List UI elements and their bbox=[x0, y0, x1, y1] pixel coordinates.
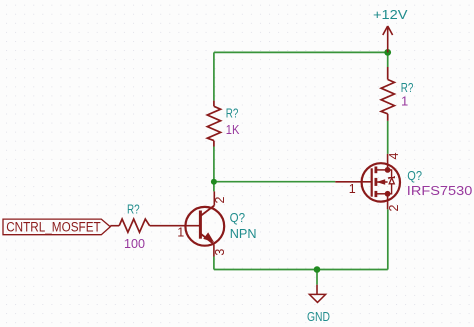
resistor R3 100 body bbox=[119, 219, 149, 232]
transistor Q1 collector diagonal bbox=[200, 206, 214, 217]
wire R3 to base bbox=[150, 225, 201, 227]
svg-text:1K: 1K bbox=[226, 122, 240, 137]
wire emitter vertical bbox=[213, 257, 215, 270]
mosfet Q2 body diode cathode bar bbox=[389, 176, 394, 179]
mosfet Q2 drain pin bbox=[387, 154, 389, 170]
svg-text:GND: GND bbox=[307, 309, 330, 324]
wire R2 to drain bbox=[387, 121, 389, 154]
svg-text:Q?: Q? bbox=[407, 168, 422, 183]
svg-text:IRFS7530: IRFS7530 bbox=[407, 183, 473, 198]
mosfet Q2 channel bottom bbox=[374, 191, 377, 197]
mosfet Q2 body diode wire upper bbox=[388, 170, 392, 178]
global label CNTRL_MOSFET bbox=[3, 219, 110, 235]
mosfet Q2 substrate link bbox=[376, 181, 387, 183]
svg-text:R?: R? bbox=[127, 201, 140, 216]
svg-text:4: 4 bbox=[387, 152, 401, 159]
svg-text:3: 3 bbox=[213, 249, 227, 256]
transistor Q1 collector pin bbox=[213, 191, 215, 205]
mosfet Q2 gate pin bbox=[335, 181, 371, 183]
svg-text:+12V: +12V bbox=[373, 7, 408, 22]
svg-text:1: 1 bbox=[401, 94, 408, 109]
svg-text:2: 2 bbox=[213, 196, 227, 203]
mosfet Q2 drain link bbox=[376, 169, 388, 171]
mosfet Q2 source dot bbox=[385, 191, 391, 197]
svg-text:CNTRL_MOSFET: CNTRL_MOSFET bbox=[6, 219, 101, 234]
transistor Q1 circle bbox=[185, 207, 224, 246]
resistor R2 1 body bbox=[381, 67, 394, 121]
svg-text:1: 1 bbox=[177, 225, 184, 239]
wire +12V to R2 bbox=[387, 52, 389, 67]
junction top right bbox=[384, 49, 391, 56]
wire label to R3 bbox=[110, 225, 119, 227]
mosfet Q2 substrate arrow bbox=[376, 179, 385, 185]
wire bottom horizontal bbox=[214, 269, 388, 271]
transistor Q1 NPN bbox=[185, 191, 224, 256]
wire gate horizontal bbox=[214, 181, 335, 183]
transistor Q1 emitter diagonal bbox=[200, 234, 214, 245]
wire left vertical lower bbox=[213, 147, 215, 192]
mosfet Q2 body diode wire lower bbox=[388, 184, 392, 194]
ground symbol bbox=[309, 285, 325, 303]
mosfet Q2 channel top bbox=[374, 167, 377, 174]
junction gate bbox=[211, 179, 217, 185]
mosfet Q2 drain dot bbox=[385, 167, 391, 173]
wire gnd vertical bbox=[316, 270, 318, 285]
power symbol +12V arrow bbox=[383, 26, 393, 52]
mosfet Q2 source link bbox=[376, 193, 388, 195]
svg-text:100: 100 bbox=[124, 236, 145, 251]
mosfet Q2 channel middle bbox=[374, 178, 377, 186]
mosfet Q2 source pin bbox=[387, 194, 389, 210]
transistor Q1 emitter arrow bbox=[204, 233, 213, 241]
transistor Q1 base bar bbox=[199, 211, 202, 239]
junction gnd bbox=[314, 266, 321, 273]
svg-text:R?: R? bbox=[226, 105, 239, 120]
wire top horizontal bbox=[214, 51, 388, 53]
wire left vertical upper bbox=[213, 52, 215, 100]
svg-text:NPN: NPN bbox=[230, 226, 257, 241]
mosfet Q2 body diode triangle bbox=[389, 178, 394, 184]
svg-text:2: 2 bbox=[387, 204, 401, 211]
mosfet Q2 circle bbox=[362, 163, 400, 201]
svg-text:1: 1 bbox=[349, 182, 356, 196]
resistor R1 1K body bbox=[207, 101, 220, 147]
wire source to bottom bbox=[387, 209, 389, 269]
mosfet Q2 IRFS7530 bbox=[335, 154, 400, 209]
transistor Q1 emitter pin bbox=[213, 245, 215, 257]
svg-text:Q?: Q? bbox=[230, 210, 245, 225]
mosfet Q2 gate bar bbox=[371, 168, 373, 196]
